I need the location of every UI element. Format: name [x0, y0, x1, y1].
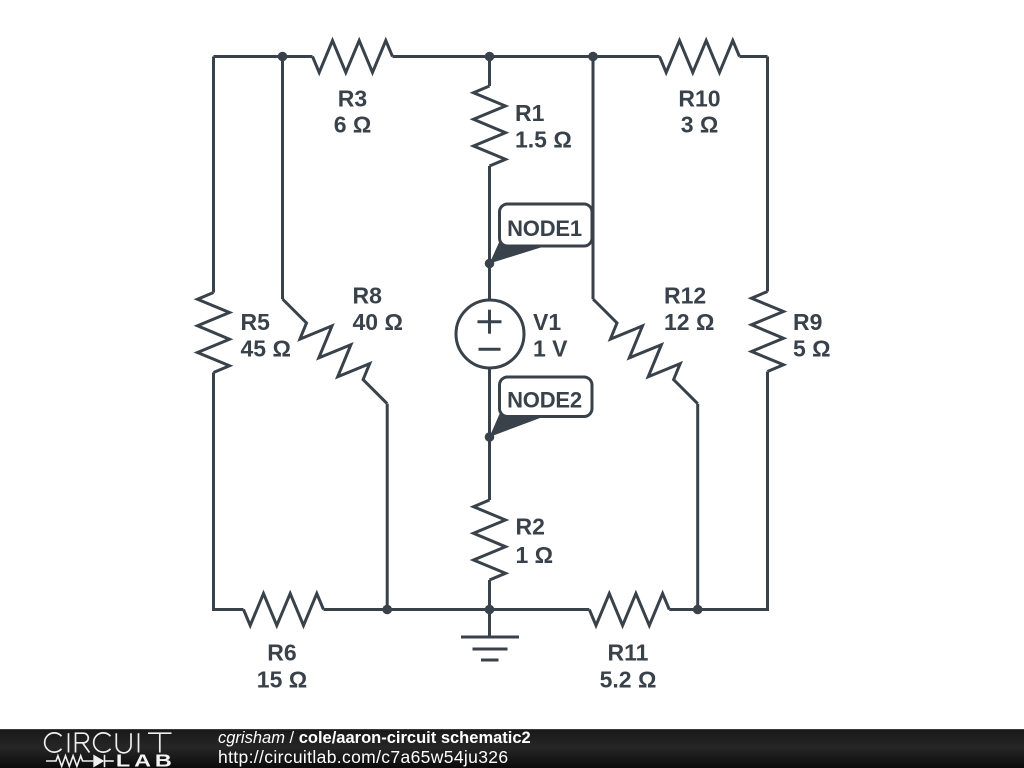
resistor R12	[593, 299, 698, 404]
svg-text:R10: R10	[678, 85, 720, 111]
svg-text:R9: R9	[793, 309, 822, 335]
resistor R8	[283, 299, 388, 404]
resistor R2	[474, 500, 506, 580]
svg-text:5.2 Ω: 5.2 Ω	[600, 667, 657, 693]
wire bottom left-middle	[324, 608, 490, 611]
footer title text	[218, 729, 531, 748]
svg-text:R2: R2	[516, 514, 545, 540]
svg-text:15 Ω: 15 Ω	[257, 667, 307, 693]
wire right lower	[698, 372, 768, 610]
wire right upper	[766, 57, 769, 292]
svg-text:R1: R1	[515, 100, 545, 126]
svg-text:R12: R12	[664, 283, 706, 309]
wire left upper	[212, 57, 215, 293]
wire top middle segment	[393, 55, 660, 58]
svg-text:5 Ω: 5 Ω	[793, 336, 831, 362]
logo CIRCUIT text	[45, 733, 172, 753]
wire branch B top	[592, 57, 595, 300]
wire NODE2 to R2	[488, 437, 491, 500]
svg-text:R5: R5	[241, 309, 271, 335]
node NODE1 callout	[485, 204, 592, 268]
junction dot top B	[588, 52, 598, 62]
svg-text:1.5 Ω: 1.5 Ω	[515, 126, 572, 152]
wire bottom middle-right	[490, 608, 590, 611]
node NODE2 callout	[485, 377, 592, 442]
wire center top lead	[488, 57, 491, 87]
svg-text:R8: R8	[353, 283, 383, 309]
wire R2 to bottom	[488, 580, 491, 610]
wire V1 to NODE2	[488, 369, 491, 437]
svg-text:12 Ω: 12 Ω	[664, 309, 714, 335]
resistor R10	[660, 41, 740, 73]
svg-text:40 Ω: 40 Ω	[353, 309, 403, 335]
svg-text:3 Ω: 3 Ω	[681, 111, 719, 137]
svg-text:NODE2: NODE2	[507, 388, 582, 413]
svg-text:R6: R6	[267, 640, 296, 666]
svg-text:LAB: LAB	[116, 751, 176, 768]
junction dot bottom A	[382, 605, 392, 615]
wire branch B bottom	[696, 404, 699, 610]
wire top left segment	[214, 55, 313, 58]
wire top right segment	[740, 55, 768, 58]
wire center to NODE1	[488, 166, 491, 264]
svg-text:R11: R11	[608, 640, 649, 666]
svg-text:45 Ω: 45 Ω	[241, 336, 291, 362]
resistor R11	[589, 594, 669, 626]
resistor R3	[313, 41, 393, 73]
wire left lower	[214, 373, 244, 610]
junction dot bottom center	[485, 605, 495, 615]
junction dot top center	[485, 52, 495, 62]
wire bottom right segment	[669, 608, 697, 611]
svg-text:V1: V1	[533, 309, 561, 335]
wire NODE1 to V1	[488, 264, 491, 300]
resistor R9	[752, 292, 784, 372]
ground	[488, 610, 491, 638]
junction dot top A	[278, 52, 288, 62]
wire branch A bottom	[386, 404, 389, 610]
logo resistor-diode glyph	[46, 755, 114, 768]
resistor R6	[244, 594, 324, 626]
footer bar	[0, 729, 1024, 768]
svg-text:1 V: 1 V	[533, 336, 568, 362]
svg-text:R3: R3	[338, 85, 367, 111]
resistor R5	[198, 293, 230, 373]
voltage source V1	[456, 300, 524, 368]
svg-text:6 Ω: 6 Ω	[334, 111, 372, 137]
svg-text:NODE1: NODE1	[507, 216, 582, 241]
resistor R1	[474, 86, 506, 166]
junction dot bottom B	[693, 605, 703, 615]
wire branch A top	[281, 57, 284, 300]
svg-text:1 Ω: 1 Ω	[516, 542, 554, 568]
